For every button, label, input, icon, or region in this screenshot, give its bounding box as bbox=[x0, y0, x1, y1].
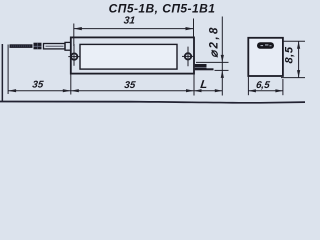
dimension 31 bbox=[74, 19, 194, 47]
dimension L bbox=[194, 17, 222, 96]
svg-text:⌀2,8: ⌀2,8 bbox=[209, 25, 221, 58]
dimension 6,5 bbox=[248, 76, 283, 95]
extension line at shaft left end bbox=[8, 45, 9, 95]
shaft cylinder bbox=[44, 44, 66, 49]
body outer rectangle bbox=[71, 37, 194, 73]
threaded shaft bbox=[10, 44, 33, 48]
locking nut bbox=[34, 43, 42, 50]
dimension 35 shaft bbox=[8, 90, 71, 92]
end view box bbox=[248, 38, 283, 76]
bottom page border bbox=[0, 101, 305, 104]
right mounting hole bbox=[182, 47, 194, 67]
left page border bbox=[2, 44, 3, 102]
svg-text:6,5: 6,5 bbox=[255, 80, 270, 91]
body inner rectangle bbox=[80, 44, 177, 69]
dimension ⌀2,8 bbox=[196, 62, 229, 70]
terminal lug bbox=[195, 64, 214, 70]
left mounting hole bbox=[68, 44, 80, 66]
dimension 35 body bbox=[71, 74, 194, 96]
shaft collar bbox=[65, 42, 71, 50]
dimension 8,5 bbox=[281, 41, 305, 77]
svg-text:31: 31 bbox=[123, 16, 136, 27]
screwdriver slot bbox=[257, 42, 274, 49]
svg-text:35: 35 bbox=[124, 80, 137, 91]
svg-text:35: 35 bbox=[32, 80, 45, 91]
svg-text:L: L bbox=[200, 79, 208, 91]
svg-text:СП5-1В, СП5-1В1: СП5-1В, СП5-1В1 bbox=[109, 1, 216, 15]
svg-text:8,5: 8,5 bbox=[284, 46, 296, 63]
